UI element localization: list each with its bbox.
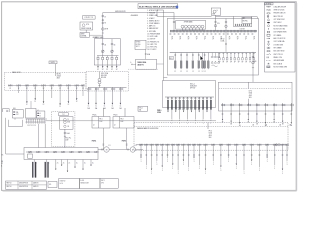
transformer chain [99,72,101,79]
legend row 4 [267,15,269,17]
svg-text:SCL: SCL [49,184,52,186]
svg-text:16. LTG MCC: 16. LTG MCC [147,49,157,51]
wire feeder into cluster [30,101,32,108]
legend row 3 [268,12,270,14]
incoming chain from service [173,19,175,31]
svg-text:1C: 1C [112,106,114,108]
wire gen drop [215,15,217,18]
right panel breaker 8 [282,103,284,107]
br breaker 8 [176,144,178,146]
br drop [177,146,179,170]
svg-text:E-1.0: E-1.0 [60,183,63,185]
br breaker 13 [203,144,205,146]
svg-text:3C: 3C [106,69,108,71]
legend row 18 [266,60,271,62]
svg-text:UNIT CTRL M: UNIT CTRL M [274,54,284,56]
br drop [156,146,158,161]
svg-text:CB: CB [104,44,106,46]
emerg chain inside [225,19,227,31]
br breaker 20 [257,144,259,146]
bottom box 3 [100,179,118,189]
svg-text:480V: 480V [57,78,60,80]
feeder drop [256,107,258,122]
svg-text:2C: 2C [92,163,94,165]
wire motor branch [98,149,104,151]
svg-text:3B: 3B [230,123,232,125]
svg-text:PNL LP-1: PNL LP-1 [65,138,71,140]
svg-text:UTIL: UTIL [86,24,89,26]
svg-text:1 2: 1 2 [198,71,200,73]
svg-text:V1: V1 [1,163,3,165]
wire B to C [14,118,16,120]
mcc feeder 6 [187,97,189,99]
generator box [211,8,220,15]
xfmr T1 [181,25,184,28]
comb risers down [38,124,40,148]
center panel breaker 3 [103,88,105,91]
feeder drop [290,107,292,124]
br drop [151,146,153,170]
fused feeder 4 [111,56,113,58]
left panel breaker 1 [8,84,10,86]
legend row 11 [267,37,271,39]
bl breaker 2 [36,151,38,153]
svg-text:EM PNL: EM PNL [243,20,248,22]
small stamp box [48,182,57,188]
swgr main feeder 5 [198,53,200,70]
left panel breaker 7 [57,84,59,86]
svg-text:MDP-1: MDP-1 [51,62,56,64]
svg-text:SERVICE ENTR: SERVICE ENTR [115,11,126,13]
svg-text:LTG BKR SER: LTG BKR SER [274,44,283,46]
svg-text:1P: 1P [245,38,247,40]
swgr spare drop 7 [242,53,244,55]
svg-text:REV NO: REV NO [7,182,12,184]
right panel incoming [247,99,249,105]
svg-text:3PH: 3PH [249,97,252,99]
legend row 17 [266,57,268,59]
legend row 8 [268,28,269,29]
br drop [145,146,147,165]
mcc feeder 1 [167,97,169,99]
motor M1 contactor [100,149,102,151]
svg-text:CKT: CKT [16,114,19,116]
svg-text:P-2: P-2 [135,145,137,147]
br breaker 3 [149,144,151,146]
left panel breaker 6 [49,84,51,86]
svg-text:2C: 2C [57,163,59,165]
svg-text:LEGEND: LEGEND [265,4,272,6]
right feeder chain [252,52,254,75]
left panel breaker 4 [33,84,35,86]
br breaker 18 [241,144,243,146]
svg-text:SERV: SERV [81,34,85,36]
swgr main feeder 2 [180,53,182,70]
br drop [161,146,163,167]
svg-text:DESCRIPTION: DESCRIPTION [19,182,28,184]
br breaker 21 [265,144,267,146]
br drop [172,146,174,165]
legend row 10 [267,34,270,36]
svg-text:OF 3: OF 3 [101,183,104,185]
feeder drop [67,86,69,103]
svg-text:XFMR UTIL BUS: XFMR UTIL BUS [274,10,285,12]
svg-text:FDR 5: FDR 5 [122,141,126,143]
center panel bus [88,87,127,89]
right panel breaker 6 [265,103,267,107]
mcc feeder 5 [183,97,185,99]
swbd bus [97,55,119,57]
feeder drop [273,107,275,121]
svg-text:1P: 1P [179,38,181,40]
svg-text:DWG NO: DWG NO [60,181,65,183]
xfmr T7 [201,25,204,28]
svg-text:B: B [40,115,41,117]
feeder drop [111,91,113,105]
right panel breaker 4 [247,103,249,107]
swgr spare drop 10 [253,53,255,55]
svg-text:2C: 2C [84,163,86,165]
svg-text:13. FEEDER LTG: 13. FEEDER LTG [147,41,160,43]
svg-text:1C: 1C [120,106,122,108]
msb label box [136,59,157,69]
br drop [258,146,260,167]
mcc feeder 3 [175,97,177,99]
svg-text:2C: 2C [69,163,71,165]
svg-text:2C: 2C [68,104,70,106]
svg-text:2C: 2C [34,101,36,103]
svg-text:P: P [210,120,211,122]
motor M1 [104,147,109,152]
svg-text:TS: TS [104,23,106,25]
fused feeder 5 [116,56,118,58]
svg-text:KEYED: KEYED [136,42,141,44]
br breaker 19 [249,144,251,146]
gen chain inside [215,19,217,31]
legend row 5 [267,19,269,21]
wire utility to riser [85,30,87,33]
svg-text:208V: 208V [65,139,68,141]
svg-text:3B: 3B [282,123,284,125]
svg-text:MOTOR DIST BU: MOTOR DIST BU [274,29,285,31]
legend row 16 [267,54,269,56]
tall chain down [64,129,66,147]
br breaker 23 [280,144,282,146]
mcc feeder 10 [202,97,204,99]
motor M2 contactor [127,149,129,151]
svg-text:1 2: 1 2 [202,71,204,73]
main panel label box [49,61,57,64]
br panel feeder [207,123,209,130]
left panel bus [8,84,84,86]
utility meter M [102,28,105,31]
transformer bank box [176,21,206,30]
svg-text:1P: 1P [188,38,190,40]
svg-text:SINGLE LINE: SINGLE LINE [81,183,89,185]
svg-text:SP: SP [230,62,232,64]
svg-text:1P: 1P [237,38,239,40]
svg-text:3C: 3C [102,69,104,71]
br breaker 6 [165,144,167,146]
wire long riser [163,10,165,78]
feeder drop [34,86,36,100]
svg-text:1P: 1P [253,38,255,40]
feeder drop [239,107,241,124]
svg-text:GEN: GEN [212,13,215,15]
svg-text:2C: 2C [43,104,45,106]
left distribution panel box [5,72,86,90]
msb left tap [131,63,136,65]
feeder drop [26,86,28,103]
svg-text:T-2: T-2 [62,114,64,116]
svg-text:NOTES: NOTES [136,44,141,46]
bottom-left panel box [24,148,98,160]
bottom-left bus [26,151,97,153]
svg-text:SP: SP [234,62,236,64]
feeder drop [103,91,105,105]
CT metering ticks [102,14,104,16]
svg-text:P: P [203,120,204,122]
center panel box [86,72,129,92]
svg-text:P: P [171,120,172,122]
svg-text:DESCRIPTION: DESCRIPTION [19,186,28,188]
br drop [220,146,222,167]
xfmr T2 [184,25,187,28]
right distribution panel box [219,82,293,111]
svg-text:480V: 480V [209,135,212,137]
right panel breaker 2 [230,103,232,107]
svg-text:1 2: 1 2 [204,71,206,73]
tall inner box [60,117,74,130]
emergency panel box [234,16,252,26]
legend row 20 [267,66,270,68]
legend row 6 [267,22,270,23]
legend row 15 [268,50,270,51]
bl breaker 7 [77,151,79,153]
svg-text:EX: EX [2,154,4,156]
br breaker 14 [211,144,213,146]
main switchboard box [94,39,120,65]
br drop [182,146,184,161]
svg-text:RTU-1: RTU-1 [139,108,143,110]
svg-text:1 2: 1 2 [174,71,176,73]
svg-text:3B: 3B [239,125,241,127]
xfmr T3 [188,25,191,28]
wire A riser [5,118,7,154]
legend row 9 [267,31,269,33]
disconnect tick [102,32,104,34]
swgr main feeder 6 [204,53,206,70]
mcc feeder 9 [198,97,200,99]
feeder drop [247,107,249,121]
svg-text:1. HTR MOTOR: 1. HTR MOTOR [147,10,159,12]
panelboard comb [26,118,47,120]
mcc feeder 12 [210,97,212,99]
panel box E [113,117,134,129]
small box D plain [26,108,36,118]
br drop [282,146,284,170]
typ squiggle note [212,65,218,67]
feeder drop [18,86,20,93]
legend row 14 [267,47,269,49]
key annotation box [135,40,146,49]
swgr spare drop 5 [234,53,236,55]
svg-text:120V: 120V [99,121,102,123]
svg-text:RE: RE [1,161,3,163]
br breaker 2 [144,144,146,146]
feeder drop [51,86,53,98]
switchgear lineup box [167,19,258,76]
title block strip [6,181,47,189]
svg-text:3PH 3W: 3PH 3W [190,88,196,90]
br drop [205,146,207,170]
br breaker 15 [218,144,220,146]
xfmr T4 [191,25,194,28]
svg-text:MCC-1: MCC-1 [190,84,195,86]
wire tie line [45,120,216,122]
bl drops [33,160,35,178]
svg-text:480-208V: 480-208V [101,75,107,77]
bus hatch [170,30,172,33]
swgr main feeder 1 [174,53,176,70]
svg-text:1P: 1P [204,38,206,40]
bl breaker 8 [86,151,88,153]
wire emergency to panel [252,16,258,18]
feeder drop [43,86,45,103]
svg-text:SP: SP [238,62,240,64]
br breaker 4 [154,144,156,146]
svg-text:480V: 480V [249,95,252,97]
bus riser link [225,32,227,52]
fused feeder 1 [97,56,99,58]
small label box above panel [138,106,148,111]
svg-text:TIE 52: TIE 52 [221,39,225,41]
svg-text:1P: 1P [196,38,198,40]
feeder drop [222,107,224,121]
breaker chain x102.8 [102,39,104,56]
feeder drop [76,86,78,100]
br drop [167,146,169,158]
svg-text:G: G [130,62,131,64]
svg-text:3PH 4W: 3PH 4W [101,77,107,79]
br breaker 22 [272,144,274,146]
swgr main feeder 3 [186,53,188,70]
feeder drop [230,107,232,122]
left panel breaker 2 [16,84,18,86]
breaker chain x112.0 [111,39,113,56]
legend row 1 [266,6,271,8]
utility service box [80,33,90,38]
feeder drop [88,91,90,105]
legend row 19 [268,63,270,65]
bus label box [169,57,173,60]
blue hyperlink icon [176,6,178,8]
svg-text:1 2: 1 2 [180,71,182,73]
svg-text:1P: 1P [9,88,11,90]
bl breaker 3 [44,151,46,153]
feeder drop [282,107,284,122]
svg-text:1P: 1P [171,38,173,40]
svg-text:P: P [187,120,188,122]
svg-text:1P: 1P [212,38,214,40]
panel box D [92,117,110,129]
svg-text:PNL: PNL [16,112,19,114]
svg-text:2C: 2C [35,163,37,165]
svg-text:3C: 3C [97,69,99,71]
svg-text:2. FEEDER: 2. FEEDER [147,13,156,15]
svg-text:1 2: 1 2 [186,71,188,73]
svg-text:5. EMERG MOTO: 5. EMERG MOTO [147,20,160,22]
fused feeder 3 [106,56,108,58]
fused feeder 2 [102,56,104,58]
svg-text:2C: 2C [76,163,78,165]
svg-text:UTILITY CO: UTILITY CO [84,17,93,19]
swgr spare drop 6 [238,53,240,55]
legend row 13 [267,44,269,46]
br breaker 11 [191,144,193,146]
swgr main feeder 4 [192,53,194,70]
wire main tie A [103,12,174,14]
svg-text:12. EXH SP: 12. EXH SP [147,39,155,41]
svg-text:UNIT GEN C: UNIT GEN C [274,22,282,24]
left panel breaker 8 [66,84,68,86]
bl breaker 5 [61,151,63,153]
br drop [193,146,195,158]
svg-text:E-101: E-101 [81,180,85,182]
svg-text:P: P [179,120,180,122]
svg-text:3#500: 3#500 [157,112,161,114]
br drop [228,146,230,158]
svg-text:2C: 2C [26,104,28,106]
right panel bus [221,104,290,106]
svg-text:1 2: 1 2 [192,71,194,73]
bl breaker 1 [27,151,29,153]
svg-text:1C: 1C [104,106,106,108]
bl breaker 4 [52,151,54,153]
svg-text:14. UNIT CTR: 14. UNIT CTR [147,44,157,46]
motor M2 [130,147,135,152]
br drop [286,146,288,161]
svg-text:6. COMP EMERG: 6. COMP EMERG [147,23,160,25]
svg-text:2C: 2C [76,101,78,103]
wire E down [126,128,128,150]
br breaker 12 [197,144,199,146]
br drop [243,146,245,170]
wire D feed [102,108,104,117]
mcc feeder 11 [206,97,208,99]
bottom-left small box [28,154,33,158]
svg-text:RP-1: RP-1 [99,119,102,121]
feeder from T2 [64,147,66,149]
svg-text:2C: 2C [59,106,61,108]
feeder drop [82,86,84,96]
swgr spare drop 1 [219,53,221,55]
svg-text:SP: SP [219,62,221,64]
svg-text:PNL B: PNL B [113,115,117,117]
svg-text:REV NO: REV NO [7,186,12,188]
wire main tie B [157,15,212,17]
swgr spare drop 9 [249,53,251,55]
page border frame [2,2,297,191]
svg-text:ELB: ELB [13,108,16,110]
left panel breaker 3 [24,84,26,86]
starter double circles [275,144,277,146]
br bus [136,144,287,146]
mcc feeder 8 [194,97,196,99]
svg-text:3C: 3C [111,69,113,71]
br drop [140,146,142,158]
br breaker 1 [138,144,140,146]
